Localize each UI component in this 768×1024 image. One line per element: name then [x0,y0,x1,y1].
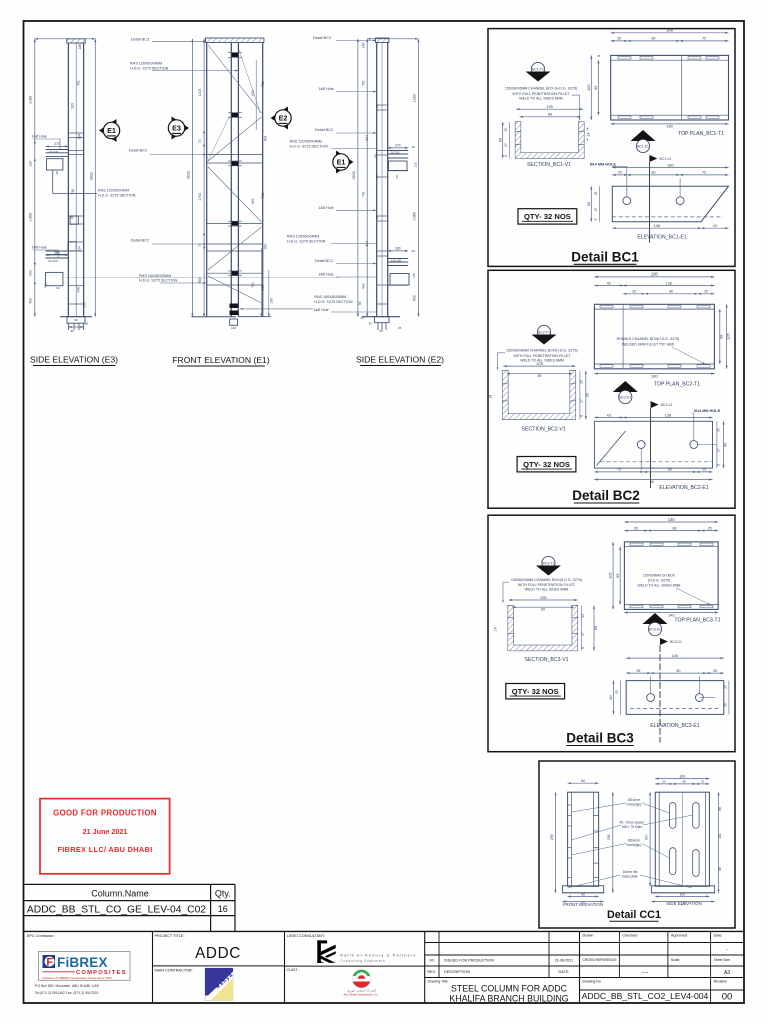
CC1 mid dim line [612,792,614,893]
svg-text:180: 180 [651,272,659,277]
K consultant logo [317,940,335,963]
svg-text:14: 14 [587,133,591,137]
section BC2-V1 dims [503,365,575,367]
svg-text:3632: 3632 [187,171,191,179]
svg-text:14Ø Hole: 14Ø Hole [318,87,333,91]
svg-text:STEEL COLUMN FOR ADDC: STEEL COLUMN FOR ADDC [451,983,568,993]
svg-text:25: 25 [581,614,585,618]
svg-text:QTY- 32 NOS: QTY- 32 NOS [524,212,571,221]
svg-text:Sheet Size: Sheet Size [714,958,731,962]
column1 top dimension [35,38,96,40]
elevation BC1 dims [612,167,728,169]
svg-text:90: 90 [379,329,383,333]
top plan BC2 dims [594,276,714,278]
svg-text:27: 27 [581,632,585,636]
svg-text:150X60X6MM CHANNEL BOX(H.D.G.: 150X60X6MM CHANNEL BOX(H.D.G. S275) [511,578,582,582]
view symbol E2 [271,107,289,130]
svg-text:150X60X6MM CHANNEL BOX(H.D.G.: 150X60X6MM CHANNEL BOX(H.D.G. S275) [506,348,577,352]
svg-text:RHS 120X60X4MM: RHS 120X60X4MM [290,140,322,144]
column1 right dimension line [94,39,96,317]
svg-text:105: 105 [540,595,547,600]
svg-text:858: 858 [198,278,202,284]
svg-text:1360: 1360 [29,213,33,221]
long leader line RHS160 [65,277,340,279]
svg-text:Drawing No: Drawing No [583,979,601,983]
detail box BC3 frame [488,515,735,752]
svg-text:FRONT ELEVATION (E1): FRONT ELEVATION (E1) [172,355,270,365]
title block outer [24,930,745,932]
svg-text:448: 448 [361,283,365,289]
svg-text:25: 25 [594,192,598,196]
svg-text:295: 295 [550,834,554,840]
svg-text:DATE:: DATE: [559,970,570,974]
svg-text:QTY- 32 NOS: QTY- 32 NOS [523,460,570,469]
svg-text:WELD TO ALL SIDES 6MM: WELD TO ALL SIDES 6MM [525,588,569,592]
top plan BC2 outline [594,304,714,369]
svg-text:105: 105 [546,104,553,109]
svg-text:Detail BC3: Detail BC3 [131,38,149,42]
svg-text:150X60X6MM CHANNEL BOX (H.D.G.: 150X60X6MM CHANNEL BOX (H.D.G. S275) [505,86,577,90]
svg-text:355: 355 [44,283,48,288]
column2 connection plates [207,154,263,156]
column3 top dim [367,38,418,40]
svg-text:280: 280 [395,247,401,251]
svg-text:164: 164 [264,244,268,250]
svg-text:74: 74 [198,139,202,143]
title block verticals [152,931,154,1003]
svg-text:BC1-T1: BC1-T1 [532,68,544,72]
svg-text:14Ø Hole: 14Ø Hole [318,273,333,277]
svg-text:75: 75 [617,468,621,472]
column1 base [60,316,92,318]
svg-text:WITH FULL PENETRATION FILLET: WITH FULL PENETRATION FILLET [518,583,576,587]
svg-text:SECTION_BC1-V1: SECTION_BC1-V1 [527,162,571,168]
CC1 front dims [568,782,599,784]
svg-text:RHS/M.S CHANNEL BOX(H.D.G. S27: RHS/M.S CHANNEL BOX(H.D.G. S275) [617,337,680,341]
svg-text:30: 30 [56,286,60,290]
svg-text:H.D.G. S275 SECTION: H.D.G. S275 SECTION [314,300,353,304]
svg-text:3632: 3632 [89,172,93,180]
svg-text:base plate: base plate [622,875,638,879]
flag BC3-T1 [542,556,555,569]
svg-text:60: 60 [395,175,399,179]
svg-text:80: 80 [668,468,672,472]
svg-text:14Ø Hole: 14Ø Hole [31,246,46,250]
svg-text:25: 25 [702,468,706,472]
svg-text:14Ø Hole: 14Ø Hole [313,308,328,312]
column3 joints [377,104,388,106]
CC1 slots [670,803,676,829]
svg-text:280: 280 [54,251,60,255]
section BC3-V1 channel [508,606,577,651]
svg-text:300: 300 [644,834,648,840]
svg-text:761: 761 [361,80,365,86]
svg-text:25: 25 [618,171,622,175]
svg-text:21 June 2021: 21 June 2021 [83,827,128,836]
svg-text:BC3-E1: BC3-E1 [649,628,661,632]
column drawing: FRONT ELEVATION (E1) [206,38,208,317]
svg-text:Tel:(971-2) 5511462 Fax:: Tel:(971-2) 5511462 Fax: (971-2) 5513331 [35,991,99,995]
svg-text:56: 56 [683,780,687,784]
CC1 side dims [655,778,709,780]
view symbol E3 [172,117,190,140]
detail box BC2 frame [488,270,735,508]
svg-text:448: 448 [76,287,80,293]
svg-text:BC2-T1: BC2-T1 [538,331,550,335]
svg-text:60: 60 [412,249,416,253]
svg-text:Detail BC3: Detail BC3 [313,36,331,40]
svg-text:43: 43 [607,281,611,285]
detail box CC1 frame [539,761,735,928]
svg-text:H.D.G. S275 SECTION: H.D.G. S275 SECTION [130,66,169,70]
column2 bolts [232,53,238,57]
svg-text:45: 45 [597,54,601,58]
svg-text:21-06-2021: 21-06-2021 [555,959,573,963]
svg-text:150X60MM CH BOX: 150X60MM CH BOX [643,574,676,578]
svg-text:100: 100 [231,326,236,330]
svg-text:27: 27 [594,208,598,212]
revision table [425,942,744,944]
svg-text:SECTION_BC2-V1: SECTION_BC2-V1 [522,426,566,432]
svg-text:Revision: Revision [714,979,727,983]
svg-text:88: 88 [718,807,722,811]
column3 upper bracket [388,150,409,152]
svg-text:270: 270 [54,142,60,146]
svg-text:DESCRIPTION: DESCRIPTION [444,970,470,974]
QTY box BC3 [506,684,565,699]
svg-text:138: 138 [666,281,672,285]
svg-text:RHS 120X60X4MM: RHS 120X60X4MM [287,235,319,239]
svg-text:80: 80 [673,526,677,530]
svg-text:A division of FIBREX Construct: A division of FIBREX Construction Group … [42,976,112,980]
CC1 front elevation column [568,792,599,886]
svg-text:80: 80 [650,480,654,484]
svg-text:27: 27 [716,448,720,452]
svg-text:ISSUED FOR PRODUCTION: ISSUED FOR PRODUCTION [444,959,494,963]
svg-text:761: 761 [251,282,255,288]
svg-text:60: 60 [581,779,585,783]
FIBREX logo [38,952,130,981]
column2 bolt row plates [228,52,242,54]
svg-text:140: 140 [668,517,676,522]
svg-text:452: 452 [29,298,33,304]
svg-text:100: 100 [269,298,273,304]
svg-text:Detail BC2: Detail BC2 [131,239,149,243]
svg-text:10mm thk: 10mm thk [623,870,638,874]
svg-text:Ø14mm: Ø14mm [628,839,640,843]
svg-text:448: 448 [261,285,265,291]
svg-text:Column.Name: Column.Name [91,888,149,898]
svg-text:751: 751 [261,81,265,87]
svg-text:25: 25 [504,128,508,132]
svg-text:25: 25 [617,37,621,41]
svg-text:M8 x 75 bolts: M8 x 75 bolts [622,825,642,829]
svg-text:452: 452 [412,295,416,301]
svg-text:LIEED CONSULTANT:: LIEED CONSULTANT: [287,934,325,938]
svg-text:00: 00 [430,959,434,963]
svg-text:25: 25 [724,685,728,689]
svg-text:TOP PLAN_BC2-T1: TOP PLAN_BC2-T1 [654,382,700,388]
ADDC client logo [352,970,370,988]
svg-text:GOOD FOR PRODUCTION: GOOD FOR PRODUCTION [53,809,157,818]
CC1 side base plate [651,886,714,893]
svg-text:E1: E1 [337,158,346,167]
svg-text:60: 60 [581,892,585,896]
svg-text:75: 75 [702,171,706,175]
top plan BC3 dims [624,521,718,523]
svg-text:.: . [688,947,689,952]
svg-text:634: 634 [264,135,268,141]
svg-text:8: 8 [581,647,585,649]
svg-text:Date: Date [714,934,722,938]
svg-text:Rafik El-Khoury & Partners: Rafik El-Khoury & Partners [340,952,416,957]
svg-text:PROJECT TITLE :: PROJECT TITLE : [155,934,186,938]
elevation BC1-E1 outline [612,186,728,222]
svg-text:WELDED 6MM FILLET TYP. ABS: WELDED 6MM FILLET TYP. ABS [622,342,675,346]
column3 top plate [376,38,389,43]
svg-text:140: 140 [672,653,679,658]
flag BC2-E1 [613,381,638,392]
svg-text:295: 295 [607,834,611,840]
svg-text:146: 146 [361,42,365,48]
svg-text:180: 180 [666,28,674,33]
svg-text:60: 60 [586,393,590,397]
svg-text:100: 100 [679,774,685,778]
section BC1-V1 dims [516,108,583,110]
svg-text:ADDC: ADDC [195,945,241,962]
svg-text:14: 14 [489,395,493,399]
svg-text:1360: 1360 [412,212,416,220]
svg-text:1103: 1103 [198,89,202,97]
svg-text:.: . [598,947,599,952]
svg-text:43: 43 [607,413,611,417]
svg-text:Detail BC2: Detail BC2 [315,128,333,132]
top plan BC1 dims [611,32,729,34]
svg-text:120 220: 120 220 [391,259,402,263]
svg-text:ELEVATION_BC1-E1: ELEVATION_BC1-E1 [637,235,687,241]
svg-text:751: 751 [261,193,265,199]
column2 lacing diagonals [208,45,262,113]
svg-text:SIDE ELEVATION (E3): SIDE ELEVATION (E3) [30,355,118,365]
column name table [24,883,236,885]
top plan BC1-T1 outline [611,55,729,120]
svg-text:SIDE ELEVATION (E2): SIDE ELEVATION (E2) [356,355,444,365]
svg-text:634: 634 [251,90,255,96]
svg-text:634: 634 [365,135,369,141]
svg-text:52: 52 [615,690,619,694]
svg-text:BC1-V1: BC1-V1 [659,157,671,161]
svg-text:634: 634 [77,246,81,252]
flag BC1-T1 [531,62,544,75]
svg-text:25: 25 [579,380,583,384]
svg-text:SIDE ELEVATION: SIDE ELEVATION [666,901,701,906]
svg-text:30: 30 [360,316,364,320]
svg-text:25: 25 [701,780,705,784]
svg-text:RHS 160X80X5MM: RHS 160X80X5MM [314,295,346,299]
section BC3-V1 dims [509,599,578,601]
svg-text:SECTION_BC3-V1: SECTION_BC3-V1 [524,657,568,663]
svg-text:40 - thick spacer: 40 - thick spacer [620,821,646,825]
svg-text:14Ø Hole: 14Ø Hole [318,206,333,210]
svg-text:BC2-E1: BC2-E1 [619,396,631,400]
svg-text:E1: E1 [107,126,116,135]
elevation BC2 dims [594,417,623,419]
svg-text:105: 105 [536,361,543,366]
svg-text:35: 35 [634,526,638,530]
svg-text:50: 50 [358,301,362,305]
column2 right dims [255,60,257,130]
svg-text:Abu Dhabi Distribution Co.: Abu Dhabi Distribution Co. [343,992,379,996]
svg-text:8: 8 [504,155,508,157]
svg-text:88: 88 [374,154,378,158]
svg-text:90: 90 [70,329,74,333]
column2 right dim verticals [260,248,262,317]
svg-text:1764: 1764 [198,193,202,201]
svg-text:ELEVATION_BC2-E1: ELEVATION_BC2-E1 [659,485,709,491]
column1 lower bracket [46,250,69,252]
svg-text:80: 80 [652,171,656,175]
svg-text:TOP PLAN_BC1-T1: TOP PLAN_BC1-T1 [678,131,724,137]
svg-text:Detail CC1: Detail CC1 [607,909,661,921]
column3 base [362,316,400,318]
svg-text:KHALIFA BRANCH BUILDING: KHALIFA BRANCH BUILDING [449,993,568,1003]
svg-text:3632: 3632 [352,171,356,179]
svg-text:634: 634 [78,134,82,140]
svg-text:138: 138 [665,413,671,417]
svg-text:35: 35 [724,703,728,707]
svg-text:940: 940 [251,198,255,204]
column1 upper bracket [46,149,69,151]
svg-text:105: 105 [586,84,591,91]
svg-text:270: 270 [395,144,401,148]
svg-text:FIBREX LLC/ ABU DHABI: FIBREX LLC/ ABU DHABI [57,845,152,854]
svg-text:105: 105 [608,571,613,578]
elevation BC3 dims [626,657,724,659]
svg-text:180: 180 [666,124,673,129]
svg-text:80: 80 [375,175,379,179]
svg-text:25: 25 [713,669,717,673]
svg-text:80: 80 [652,37,656,41]
svg-text:80: 80 [375,215,379,219]
svg-text:MAIN CONTRACTOR:: MAIN CONTRACTOR: [155,968,193,972]
svg-text:holes(typ): holes(typ) [627,843,642,847]
svg-text:75: 75 [702,37,706,41]
svg-text:20: 20 [662,780,666,784]
svg-text:CLINT :: CLINT : [287,968,300,972]
flag BC2-T1 [537,325,550,338]
svg-text:Ø14mm: Ø14mm [628,798,640,802]
svg-text:80: 80 [375,104,379,108]
column3 lower bracket [388,258,409,260]
svg-text:RHS 160X80X5MM: RHS 160X80X5MM [139,274,171,278]
Ranya logo [205,968,235,1001]
svg-text:25: 25 [716,428,720,432]
svg-text:60: 60 [609,695,613,699]
elevation BC3-E1 outline [626,681,724,715]
svg-text:60: 60 [587,202,591,206]
svg-text:EPC Contractor :: EPC Contractor : [27,934,56,938]
cut line BC2-V1 [650,408,652,488]
svg-text:781: 781 [361,191,365,197]
detail box BC1 frame [488,29,735,267]
svg-text:----: ---- [642,970,649,976]
svg-text:REV.: REV. [428,970,437,974]
svg-text:138: 138 [654,224,660,228]
svg-text:89: 89 [720,335,724,339]
svg-text:89: 89 [541,607,545,611]
svg-text:90: 90 [74,318,78,322]
svg-text:WELD TO ALL SIDES 6MM: WELD TO ALL SIDES 6MM [638,584,681,588]
svg-text:160: 160 [29,270,33,276]
svg-text:Qty.: Qty. [215,888,231,898]
svg-text:P.O Box 862, Mussafah, ABU D: P.O Box 862, Mussafah, ABU DHABI, UAE [35,984,100,988]
view symbol E1 left [99,119,117,142]
svg-text:120: 120 [414,162,418,167]
svg-text:20 220: 20 220 [49,150,59,154]
svg-text:20 220: 20 220 [48,259,58,263]
svg-text:holes(typ): holes(typ) [627,803,642,807]
svg-text:BC3-V1: BC3-V1 [670,640,682,644]
svg-text:180: 180 [651,373,658,378]
svg-text:Scale: Scale [671,958,680,962]
svg-text:60: 60 [55,171,59,175]
column2 left dims [191,39,193,317]
svg-text:Ø14 MM HOLE: Ø14 MM HOLE [590,163,617,167]
svg-text:30: 30 [412,145,416,149]
column1 left dimension line [34,39,36,317]
svg-text:101: 101 [718,833,722,839]
svg-text:16: 16 [218,904,228,914]
svg-text:35: 35 [368,322,372,326]
svg-text:FiBREX: FiBREX [57,955,108,970]
column2 top plate [206,38,264,43]
svg-text:.: . [642,947,643,952]
svg-text:Detail BC3: Detail BC3 [566,730,634,745]
svg-text:35: 35 [398,326,402,330]
svg-text:Detail BC1: Detail BC1 [571,249,639,264]
svg-text:14: 14 [494,627,498,631]
svg-text:Ø14 MM HOLE: Ø14 MM HOLE [694,409,721,413]
svg-text:89: 89 [616,574,620,578]
svg-text:80: 80 [669,290,673,294]
svg-text:H.D.G. S275 SECTION: H.D.G. S275 SECTION [290,144,329,148]
column3 right dim line [417,39,419,317]
svg-text:8: 8 [579,415,583,417]
svg-text:35: 35 [636,669,640,673]
svg-text:RHS 120X60X4MM: RHS 120X60X4MM [130,62,162,66]
svg-text:Approved: Approved [671,934,687,938]
svg-text:BC1-E1: BC1-E1 [637,145,649,149]
stamp GOOD FOR PRODUCTION [40,799,170,874]
QTY box BC2 [517,457,576,472]
svg-text:A3: A3 [724,970,730,976]
svg-text:ADDC_BB_STL_CO_GE_LEV-04_C02: ADDC_BB_STL_CO_GE_LEV-04_C02 [27,904,206,915]
cut line BC1-V1 [648,162,650,243]
column drawing: SIDE ELEVATION (E2) [376,38,378,317]
elevation BC2-E1 outline [594,421,712,468]
column2 base [191,316,236,318]
svg-text:H.D.G. S275 SECTION: H.D.G. S275 SECTION [139,279,178,283]
svg-text:25: 25 [704,290,708,294]
svg-text:180: 180 [667,162,674,167]
svg-text:FRONT ELEVATION: FRONT ELEVATION [563,902,603,907]
svg-text:25: 25 [708,526,712,530]
svg-text:Detail BC2: Detail BC2 [572,488,640,503]
svg-text:ADDC_BB_STL_CO2_LEV4-004: ADDC_BB_STL_CO2_LEV4-004 [582,991,709,1001]
flag BC3-E1 [643,613,668,624]
svg-text:8: 8 [716,464,720,466]
section BC1-V1 channel [515,122,584,158]
